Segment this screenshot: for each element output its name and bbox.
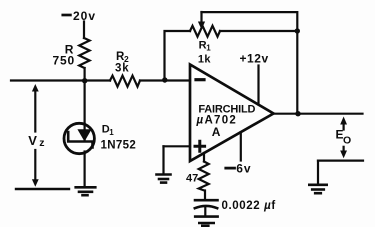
output reference line bbox=[318, 160, 363, 162]
svg-text:1: 1 bbox=[206, 44, 211, 53]
capacitor C1 0.0022uf plates bbox=[195, 199, 218, 202]
zener diode D1 circle bbox=[64, 123, 94, 153]
svg-text:47: 47 bbox=[186, 172, 198, 184]
wire through zener bbox=[83, 124, 85, 141]
svg-text:0.0022 µf: 0.0022 µf bbox=[222, 200, 276, 212]
Eo measurement arrows bbox=[343, 124, 345, 130]
-6v supply stub bbox=[240, 132, 242, 160]
main input wire bbox=[11, 79, 110, 81]
ground at output bbox=[309, 184, 326, 187]
Vz measurement arrows bbox=[34, 88, 36, 132]
node at feedback junction bbox=[162, 77, 167, 82]
wire capacitor to ground bbox=[204, 208, 206, 217]
resistor 47 (vertical zigzag) bbox=[199, 162, 209, 191]
node R1 right / top wire bbox=[295, 28, 300, 33]
node output bbox=[295, 111, 300, 116]
svg-text:3k: 3k bbox=[115, 62, 129, 74]
R1 right lead bbox=[220, 30, 297, 32]
svg-text:1N752: 1N752 bbox=[101, 140, 137, 152]
op-amp U1 triangle bbox=[190, 65, 274, 162]
svg-text:6v: 6v bbox=[236, 162, 251, 176]
svg-text:V: V bbox=[28, 133, 37, 148]
node at R/R2 junction bbox=[82, 78, 87, 83]
label -6v bbox=[226, 167, 235, 170]
wire from -20v to resistor R bbox=[83, 22, 85, 39]
svg-text:1: 1 bbox=[109, 128, 114, 137]
top feedback wire bbox=[202, 12, 298, 114]
+12v supply stub bbox=[257, 66, 259, 105]
plus input symbol bbox=[195, 141, 205, 151]
wiper arrow onto R1 bbox=[200, 12, 202, 22]
svg-text:1k: 1k bbox=[198, 54, 212, 66]
resistor R 750 (vertical zigzag) bbox=[79, 38, 89, 68]
wire node down to zener bbox=[83, 81, 85, 125]
zener cathode bar with bent ends bbox=[68, 132, 92, 148]
minus input symbol bbox=[196, 78, 204, 81]
label -20v bbox=[63, 14, 71, 17]
svg-text:O: O bbox=[343, 135, 351, 147]
svg-text:+12v: +12v bbox=[240, 52, 269, 66]
wire zener to ground bbox=[83, 152, 85, 187]
svg-text:750: 750 bbox=[53, 53, 75, 67]
wire 47 to capacitor bbox=[204, 191, 206, 200]
svg-text:z: z bbox=[39, 137, 44, 149]
resistor 47 stub from op-amp bbox=[203, 153, 205, 162]
plus input ground wire bbox=[164, 145, 191, 147]
resistor R2 3k (horizontal zigzag) bbox=[110, 76, 140, 87]
wire to output ground bbox=[317, 161, 319, 184]
wire resistor R to main node bbox=[83, 68, 85, 81]
svg-text:A: A bbox=[212, 125, 221, 139]
ground at plus input bbox=[157, 173, 171, 176]
resistor R1 1k (horizontal zigzag) bbox=[190, 26, 220, 37]
ground under diode bbox=[76, 186, 96, 189]
output wire bbox=[274, 113, 363, 115]
zener anode triangle bbox=[77, 129, 91, 141]
ground under capacitor bbox=[195, 215, 217, 218]
bottom reference line (left) bbox=[16, 188, 69, 190]
feedback left vertical wire bbox=[165, 31, 191, 81]
